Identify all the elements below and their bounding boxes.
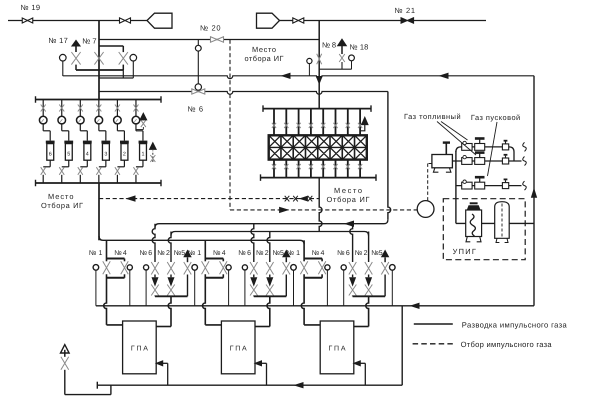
svg-text:№ 17: № 17 [48, 36, 67, 45]
svg-text:5: 5 [67, 151, 70, 157]
svg-text:№ 7: № 7 [82, 37, 96, 46]
svg-text:№ 18: № 18 [350, 43, 369, 52]
svg-text:3: 3 [104, 151, 107, 157]
svg-text:№1: №1 [89, 250, 103, 257]
svg-text:Газ пусковой: Газ пусковой [471, 113, 520, 122]
svg-text:№ 20: № 20 [200, 24, 221, 33]
svg-text:№5: №5 [174, 250, 185, 257]
svg-text:Место: Место [252, 45, 276, 54]
svg-text:№5: №5 [273, 250, 284, 257]
svg-text:2: 2 [123, 151, 126, 157]
svg-text:№4: №4 [213, 250, 226, 257]
svg-text:№1: №1 [287, 250, 301, 257]
svg-text:Отбор импульсного газа: Отбор импульсного газа [461, 340, 553, 349]
svg-text:№2: №2 [355, 250, 368, 257]
svg-text:№ 21: № 21 [395, 6, 416, 15]
svg-text:Газ топливный: Газ топливный [404, 112, 461, 121]
svg-text:№2: №2 [256, 250, 269, 257]
svg-text:№4: №4 [114, 250, 127, 257]
svg-text:№5: №5 [371, 250, 382, 257]
svg-text:№6: №6 [140, 250, 153, 257]
svg-text:отбора ИГ: отбора ИГ [245, 54, 284, 63]
svg-text:№1: №1 [188, 250, 202, 257]
svg-text:Место: Место [48, 192, 73, 201]
svg-text:6: 6 [49, 151, 52, 157]
svg-text:Отбора ИГ: Отбора ИГ [41, 201, 83, 210]
svg-text:№ 8: № 8 [322, 41, 336, 50]
svg-text:№6: №6 [337, 250, 350, 257]
svg-text:№6: №6 [238, 250, 251, 257]
svg-text:№2: №2 [157, 250, 170, 257]
svg-text:4: 4 [86, 151, 89, 157]
svg-text:ГПА: ГПА [230, 345, 247, 352]
svg-text:Разводка импульсного газа: Разводка импульсного газа [462, 320, 568, 329]
svg-text:Место: Место [334, 186, 362, 195]
svg-text:1: 1 [141, 151, 144, 157]
svg-text:Отбора ИГ: Отбора ИГ [327, 195, 370, 204]
svg-text:ГПА: ГПА [329, 345, 346, 352]
svg-text:ГПА: ГПА [131, 345, 148, 352]
svg-text:№4: №4 [312, 250, 325, 257]
svg-text:№ 19: № 19 [21, 3, 41, 12]
svg-text:№ 6: № 6 [188, 104, 204, 113]
